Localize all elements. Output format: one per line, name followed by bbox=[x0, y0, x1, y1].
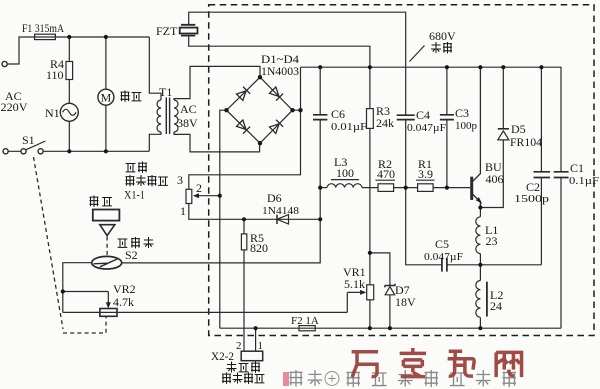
svg-text:24: 24 bbox=[490, 299, 502, 313]
svg-text:23: 23 bbox=[486, 234, 498, 248]
svg-text:2: 2 bbox=[196, 181, 202, 195]
svg-text:0.047µF: 0.047µF bbox=[424, 251, 463, 263]
svg-text:18V: 18V bbox=[395, 295, 416, 309]
svg-text:M: M bbox=[101, 91, 112, 105]
svg-text:820: 820 bbox=[250, 241, 268, 255]
svg-text:C5: C5 bbox=[435, 237, 449, 251]
svg-text:C6: C6 bbox=[331, 107, 345, 121]
svg-text:5.1k: 5.1k bbox=[344, 277, 365, 291]
svg-text:S1: S1 bbox=[22, 133, 35, 147]
svg-text:T1: T1 bbox=[159, 85, 172, 99]
svg-text:C3: C3 bbox=[455, 106, 469, 120]
svg-text:D6: D6 bbox=[267, 191, 282, 205]
svg-text:C4: C4 bbox=[416, 108, 430, 122]
svg-text:220V: 220V bbox=[1, 100, 28, 114]
svg-text:F1 315mA: F1 315mA bbox=[22, 21, 64, 35]
svg-text:1: 1 bbox=[258, 340, 264, 352]
svg-text:3.9: 3.9 bbox=[418, 167, 433, 181]
svg-text:N1: N1 bbox=[45, 106, 60, 120]
svg-text:3: 3 bbox=[177, 173, 183, 187]
svg-text:1500p: 1500p bbox=[514, 193, 550, 205]
svg-text:100: 100 bbox=[336, 166, 354, 180]
svg-text:38V: 38V bbox=[177, 116, 198, 130]
svg-text:1N4003: 1N4003 bbox=[261, 64, 299, 78]
svg-text:X1-1: X1-1 bbox=[124, 188, 145, 202]
svg-text:AC: AC bbox=[180, 102, 197, 116]
svg-text:1: 1 bbox=[180, 204, 186, 218]
svg-text:1N4148: 1N4148 bbox=[262, 205, 300, 217]
svg-text:C1: C1 bbox=[570, 161, 584, 175]
svg-text:VR2: VR2 bbox=[113, 282, 136, 296]
svg-text:FZT: FZT bbox=[156, 24, 178, 38]
svg-text:0.047µF: 0.047µF bbox=[407, 122, 446, 134]
svg-text:F2 1A: F2 1A bbox=[291, 315, 319, 327]
svg-text:470: 470 bbox=[377, 167, 395, 181]
svg-text:406: 406 bbox=[486, 172, 504, 186]
svg-text:C2: C2 bbox=[526, 180, 540, 194]
svg-text:FR104: FR104 bbox=[510, 135, 542, 149]
svg-text:0.1µF: 0.1µF bbox=[569, 175, 599, 187]
svg-text:110: 110 bbox=[46, 68, 64, 82]
svg-text:24k: 24k bbox=[376, 116, 394, 130]
svg-text:680V: 680V bbox=[429, 29, 456, 43]
svg-text:100p: 100p bbox=[455, 120, 478, 132]
svg-text:S2: S2 bbox=[125, 248, 138, 262]
svg-text:4.7k: 4.7k bbox=[113, 295, 134, 309]
svg-text:2: 2 bbox=[236, 340, 242, 352]
svg-text:D5: D5 bbox=[511, 122, 526, 136]
svg-text:X2-2: X2-2 bbox=[211, 349, 234, 363]
svg-text:0.01µF: 0.01µF bbox=[331, 121, 367, 133]
